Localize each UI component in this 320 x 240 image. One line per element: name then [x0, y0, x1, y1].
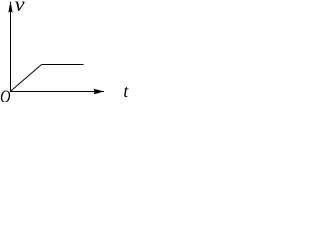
- t axis (horizontal): [10, 91, 104, 93]
- v axis arrowhead: [8, 1, 12, 13]
- background: [0, 0, 132, 102]
- svg-text:O: O: [0, 86, 11, 102]
- t axis arrowhead: [93, 89, 104, 94]
- curve: constant segment: [42, 64, 84, 66]
- v axis (vertical): [10, 2, 12, 92]
- curve: rising segment: [11, 65, 42, 92]
- velocity-time graph: [0, 0, 132, 102]
- svg-text:v: v: [15, 0, 26, 16]
